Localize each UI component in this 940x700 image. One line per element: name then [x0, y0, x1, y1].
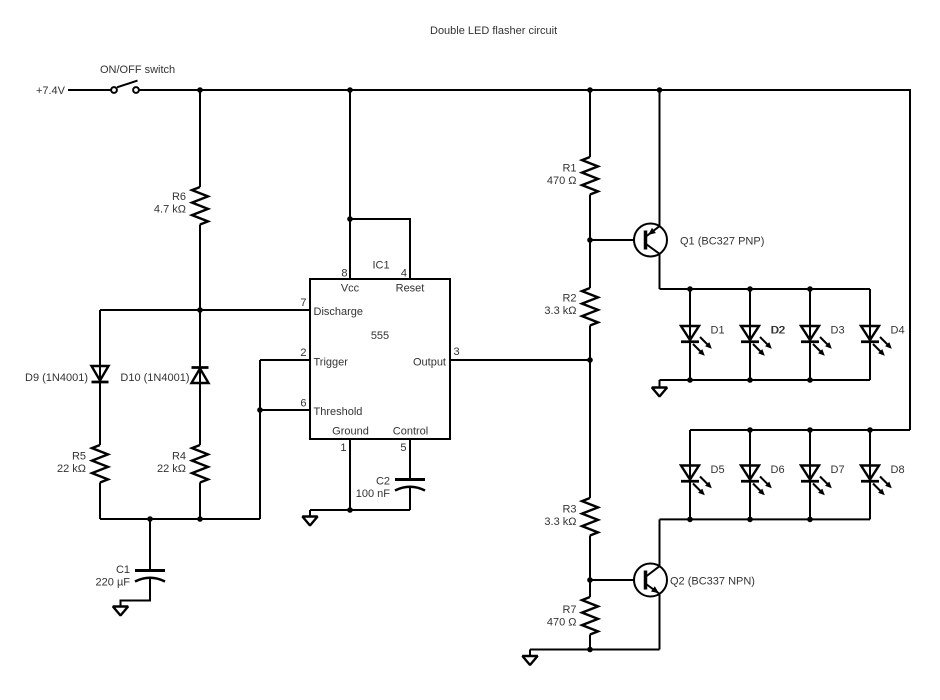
svg-text:6: 6 [300, 398, 306, 410]
svg-text:7: 7 [300, 297, 306, 309]
wire supply to switch [68, 89, 111, 91]
wire R6 bottom to D10 to R4 [199, 225, 201, 446]
wire threshold [260, 409, 310, 411]
wire Q1 base [590, 239, 644, 241]
svg-text:Vcc: Vcc [341, 283, 360, 295]
svg-text:4: 4 [401, 268, 407, 280]
ground LED row1 [652, 380, 667, 397]
node rail-R1 [587, 87, 593, 93]
svg-text:470 Ω: 470 Ω [547, 617, 577, 629]
wire R6 column top [199, 90, 201, 187]
svg-text:Control: Control [393, 426, 428, 438]
wire reset tie pin4 [350, 219, 410, 279]
svg-text:3.3 kΩ: 3.3 kΩ [544, 305, 576, 317]
node bus1 bottom D3 [807, 377, 813, 383]
node output junction [587, 357, 593, 363]
ground pin1 [302, 510, 317, 526]
svg-text:R5: R5 [72, 451, 86, 463]
LED D2 [741, 289, 785, 380]
node pin1-C2 ground [347, 507, 353, 513]
wire R3 to R7 [589, 536, 591, 598]
svg-text:D10 (1N4001): D10 (1N4001) [120, 372, 189, 384]
resistor R3 [582, 498, 598, 536]
node bus2 bottom D6 [747, 517, 753, 523]
svg-text:3.3 kΩ: 3.3 kΩ [544, 516, 576, 528]
svg-text:R7: R7 [562, 604, 576, 616]
svg-text:R2: R2 [562, 292, 576, 304]
wire R2 to R3 [589, 326, 591, 499]
wire ground pin1 [349, 439, 351, 510]
resistor R4 [192, 445, 208, 483]
node Q2 base junction [587, 577, 593, 583]
wire output pin3 [450, 359, 590, 361]
switch S1 ON/OFF [100, 64, 175, 93]
svg-text:D6: D6 [771, 464, 785, 476]
svg-text:Output: Output [413, 357, 446, 369]
svg-text:5: 5 [400, 442, 406, 454]
svg-text:D4: D4 [891, 325, 905, 337]
svg-text:D5: D5 [711, 464, 725, 476]
wire R1 to R2 [589, 195, 591, 289]
resistor R1 [582, 157, 598, 195]
diode D9 (1N4001) [25, 366, 108, 384]
wire LED row2 bottom bus [660, 518, 871, 520]
svg-text:D8: D8 [891, 464, 905, 476]
svg-text:Trigger: Trigger [314, 357, 349, 369]
svg-text:R3: R3 [562, 503, 576, 515]
svg-text:Q1 (BC327 PNP): Q1 (BC327 PNP) [680, 236, 764, 248]
capacitor C2 100nF [356, 476, 425, 501]
node bus1 top D3 [807, 286, 813, 292]
svg-text:100 nF: 100 nF [356, 488, 391, 500]
resistor R2 [582, 288, 598, 326]
svg-text:+7.4V: +7.4V [36, 85, 66, 97]
node vcc-reset tie [347, 216, 353, 222]
svg-text:2: 2 [300, 347, 306, 359]
diode D10 (1N4001) [120, 368, 208, 385]
svg-text:D2: D2 [771, 325, 785, 337]
wire C1 ground run [121, 579, 151, 607]
svg-text:3: 3 [454, 346, 460, 358]
node bus2 top D6 [747, 427, 753, 433]
node rail-Vcc [347, 87, 353, 93]
svg-text:IC1: IC1 [372, 260, 389, 272]
wire control pin5 [409, 439, 411, 478]
node discharge junction [197, 307, 203, 313]
LED D3 [801, 289, 845, 380]
svg-text:1: 1 [340, 442, 346, 454]
node bus1 bottom D1 [687, 377, 693, 383]
node rail-R6 [197, 87, 203, 93]
capacitor C1 220uF [96, 519, 165, 589]
node R4 bottom [197, 516, 203, 522]
LED D8 [861, 430, 905, 519]
transistor Q2 (BC337 NPN) [634, 519, 755, 649]
svg-text:R1: R1 [562, 163, 576, 175]
node bus1 bottom D2 [747, 377, 753, 383]
wire Vcc pin8 [349, 90, 351, 279]
wire D9 column top [99, 310, 101, 445]
node R7 bottom [587, 647, 593, 653]
wire LED row2 top bus [690, 429, 910, 431]
svg-text:Ground: Ground [332, 426, 369, 438]
wire top supply rail and right rail [140, 90, 911, 430]
wire R7 bottom [589, 635, 591, 650]
svg-text:D9 (1N4001): D9 (1N4001) [25, 372, 88, 384]
svg-text:8: 8 [341, 268, 347, 280]
wire C2 ground run [310, 509, 410, 511]
wire left bottom bus [100, 518, 260, 520]
svg-text:Threshold: Threshold [314, 406, 363, 418]
svg-text:R4: R4 [172, 451, 186, 463]
wire trigger [260, 359, 310, 361]
node bus1 top D2 [747, 286, 753, 292]
wire R4 bottom [199, 483, 201, 520]
resistor R7 [582, 597, 598, 635]
node threshold junction [257, 407, 263, 413]
LED D1 [681, 289, 725, 380]
LED D4 [861, 289, 905, 380]
wire pin7 discharge run [100, 309, 310, 311]
wire trigger-threshold column [259, 360, 261, 519]
svg-text:D7: D7 [831, 464, 845, 476]
node bus2 top D8 [867, 427, 873, 433]
svg-text:4.7 kΩ: 4.7 kΩ [154, 204, 186, 216]
node C1 tap [147, 516, 153, 522]
node bus2 bottom D5 [687, 517, 693, 523]
svg-text:Double LED flasher circuit: Double LED flasher circuit [430, 25, 557, 37]
node rail-Q1e [657, 87, 663, 93]
svg-text:D3: D3 [831, 325, 845, 337]
svg-text:220 µF: 220 µF [96, 577, 131, 589]
svg-text:22 kΩ: 22 kΩ [157, 463, 186, 475]
svg-text:D1: D1 [711, 325, 725, 337]
node bus2 bottom D7 [807, 517, 813, 523]
LED D7 [801, 430, 845, 519]
svg-text:R6: R6 [172, 191, 186, 203]
wire R5 bottom [99, 483, 101, 520]
svg-text:Discharge: Discharge [314, 306, 364, 318]
ground bottom [522, 650, 537, 666]
svg-text:C2: C2 [376, 476, 390, 488]
wire bottom ground run [530, 649, 660, 651]
wire Q2 base [590, 579, 644, 581]
svg-text:470 Ω: 470 Ω [547, 175, 577, 187]
resistor R5 [92, 445, 108, 483]
node Q1 base junction [587, 237, 593, 243]
wire LED row1 bottom bus [660, 379, 871, 381]
svg-text:555: 555 [371, 330, 389, 342]
op-amp U1: IC1 555 timer box [300, 260, 459, 455]
svg-text:22 kΩ: 22 kΩ [57, 463, 86, 475]
resistor R6 [192, 187, 208, 225]
node bus2 top D7 [807, 427, 813, 433]
LED D6 [741, 430, 785, 519]
wire C2 bottom stem [409, 488, 411, 511]
LED D5 [681, 430, 725, 519]
svg-text:Reset: Reset [396, 283, 425, 295]
wire LED row1 top bus [660, 288, 871, 290]
svg-text:ON/OFF switch: ON/OFF switch [100, 64, 175, 76]
node bus1 top D1 [687, 286, 693, 292]
svg-text:Q2 (BC337 NPN): Q2 (BC337 NPN) [670, 576, 755, 588]
wire R1 column top [589, 90, 591, 157]
transistor Q1 (BC327 PNP) [634, 90, 764, 289]
ground C1 [113, 607, 128, 616]
svg-text:C1: C1 [116, 564, 130, 576]
